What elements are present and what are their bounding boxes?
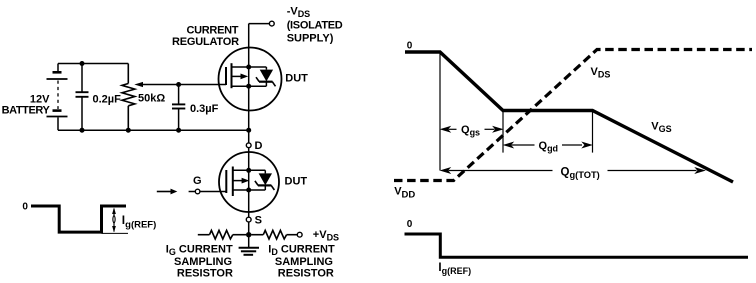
svg-text:D: D <box>255 140 263 152</box>
wire S to node <box>248 222 250 235</box>
junction dot (bottom wire / drain) <box>246 128 251 133</box>
node (source junction) <box>246 232 251 237</box>
ground <box>239 235 259 255</box>
reference line <box>102 232 129 234</box>
junction dot (0.2uF top) <box>80 61 85 66</box>
gridline x=503 <box>502 111 504 153</box>
svg-text:0: 0 <box>407 40 413 51</box>
svg-text:BATTERY: BATTERY <box>2 104 51 116</box>
arrow Ig(REF) (double headed) <box>112 208 116 233</box>
svg-text:DUT: DUT <box>285 175 308 187</box>
resistor ID sampling <box>251 230 297 239</box>
DUT MOSFET <box>219 152 279 212</box>
wire D to DUT <box>248 148 250 152</box>
svg-text:0: 0 <box>407 219 413 230</box>
junction dot (0.3uF bottom) <box>176 128 181 133</box>
capacitor C 0.3uF <box>172 85 185 131</box>
wire top (battery to pot) <box>58 63 128 65</box>
dimension Qgd <box>504 142 592 147</box>
resistor IG sampling <box>198 230 246 239</box>
input arrow <box>157 191 172 193</box>
resistor 50k pot <box>122 64 135 131</box>
gridline x=592.5 <box>592 111 594 153</box>
waveform Ig(REF) pulse <box>31 206 126 232</box>
svg-text:SUPPLY): SUPPLY) <box>287 33 334 45</box>
terminal G <box>189 191 196 193</box>
wire drain top <box>248 24 250 48</box>
wire G to gate <box>200 191 226 193</box>
gridline x=440 <box>439 52 441 171</box>
svg-text:0.2µF: 0.2µF <box>93 94 122 106</box>
terminal D <box>246 143 251 148</box>
svg-text:0: 0 <box>22 202 28 213</box>
svg-text:G: G <box>193 175 202 187</box>
terminal +VDS <box>297 232 302 237</box>
waveform VGS <box>405 52 733 182</box>
svg-text:50kΩ: 50kΩ <box>138 93 165 105</box>
capacitor C 0.2uF <box>76 64 89 131</box>
junction dot (pot bottom) <box>126 128 131 133</box>
svg-text:DUT: DUT <box>285 73 308 85</box>
waveform Ig(REF) step <box>405 234 749 257</box>
waveform VDS (dashed) <box>394 50 752 181</box>
wire bottom (battery to drain line) <box>58 129 249 131</box>
terminal -VDS <box>249 23 270 25</box>
svg-text:SAMPLING: SAMPLING <box>174 256 232 268</box>
svg-text:RESISTOR: RESISTOR <box>278 267 334 279</box>
terminal S <box>246 217 251 222</box>
wiper arrow wire (gate of regulator to pot) <box>141 84 226 86</box>
wire drain to D terminal <box>248 110 250 142</box>
dimension Qg(TOT) <box>441 168 705 173</box>
svg-text:CURRENT: CURRENT <box>187 24 239 36</box>
svg-text:(ISOLATED: (ISOLATED <box>287 19 343 31</box>
junction dot (0.2uF bottom) <box>80 128 85 133</box>
svg-text:0.3µF: 0.3µF <box>190 103 219 115</box>
svg-text:SAMPLING: SAMPLING <box>275 256 333 268</box>
wire DUT to S terminal <box>248 212 250 217</box>
svg-text:S: S <box>255 214 262 226</box>
junction dot (0.3uF top) <box>176 82 181 87</box>
svg-text:RESISTOR: RESISTOR <box>177 267 233 279</box>
MOSFET current regulator <box>219 48 282 111</box>
dimension Qgs <box>441 127 502 132</box>
battery 12V <box>47 64 68 131</box>
svg-text:REGULATOR: REGULATOR <box>172 36 239 48</box>
